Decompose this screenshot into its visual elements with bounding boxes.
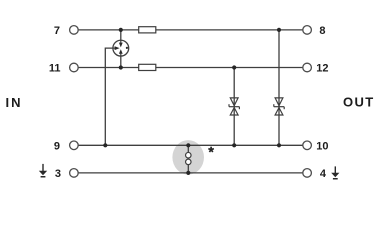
asterisk marker (208, 147, 214, 152)
terminal 11 (70, 63, 79, 72)
terminal 9 (70, 141, 79, 150)
junction dot line11/TVS1 (232, 65, 236, 69)
junction dot line9/TVS1 (232, 143, 236, 147)
svg-text:11: 11 (49, 62, 61, 74)
wire vertical TVS2 branch (278, 30, 280, 145)
junction dot line11/GDT (119, 65, 123, 69)
wire vertical TVS1 branch (233, 68, 235, 146)
terminal 12 (303, 63, 312, 72)
ground symbol right (at terminal 4) (331, 166, 339, 179)
svg-text:10: 10 (316, 140, 328, 152)
terminal 10 (303, 141, 312, 150)
resistor R1 (139, 27, 156, 33)
wire vertical through gas discharge tube (120, 30, 122, 68)
junction dot line9/GDT branch (103, 143, 107, 147)
svg-text:4: 4 (320, 168, 327, 180)
svg-text:OUT: OUT (343, 95, 375, 110)
junction dot line3/spark gap (186, 171, 190, 175)
junction dot line10/TVS2 (277, 143, 281, 147)
terminal 7 (70, 26, 79, 35)
ground symbol left (at terminal 3) (39, 164, 47, 178)
svg-text:3: 3 (55, 168, 61, 180)
isolating spark gap electrodes (two small circles) (186, 152, 192, 158)
TVS suppressor diode D1 (229, 98, 239, 115)
svg-text:IN: IN (6, 95, 23, 110)
terminal 3 (70, 169, 79, 178)
terminal 8 (303, 26, 312, 35)
svg-text:7: 7 (54, 25, 60, 37)
wire GDT left arm and branch down to line 9 (105, 48, 117, 145)
svg-text:8: 8 (319, 25, 325, 37)
svg-text:9: 9 (54, 140, 60, 152)
junction dot line7/GDT (119, 28, 123, 32)
wire line 11 to 12 (78, 67, 303, 69)
wire vertical spark-gap branch (187, 145, 189, 173)
TVS suppressor diode D2 (274, 98, 284, 115)
svg-text:12: 12 (316, 62, 328, 74)
wire line 7 to 8 (78, 29, 303, 31)
indicator disk (shaded circle) (172, 140, 204, 174)
gas discharge tube (3-electrode arrester) (113, 40, 129, 56)
junction dot line9/spark gap (186, 143, 190, 147)
wire line 9 to 10 (78, 144, 303, 146)
wire line 3 to 4 (78, 172, 303, 174)
resistor R2 (139, 64, 156, 70)
terminal 4 (303, 169, 312, 178)
junction dot line7/TVS2 (277, 28, 281, 32)
